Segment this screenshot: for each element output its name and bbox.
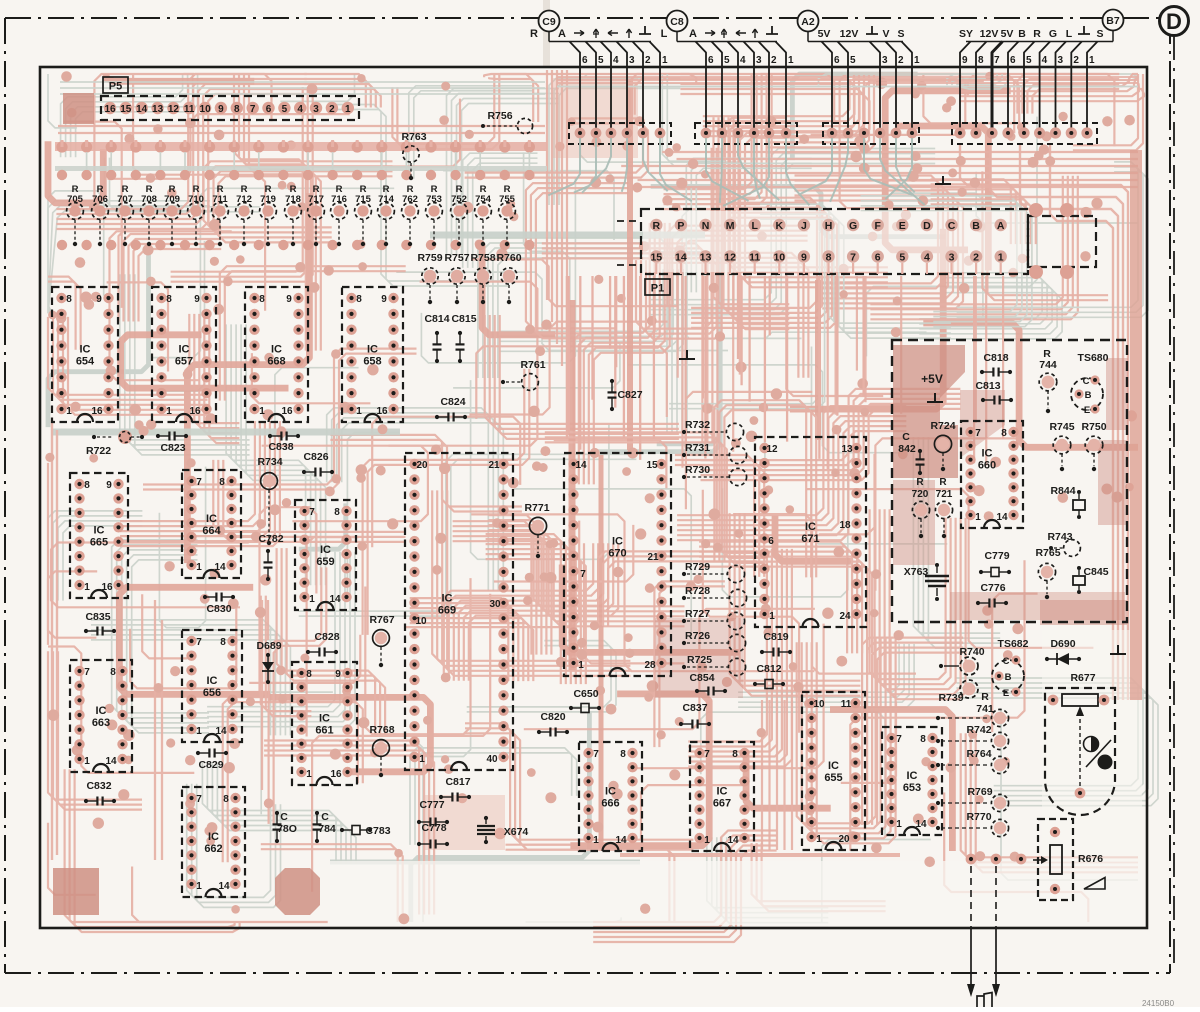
- svg-text:R767: R767: [369, 614, 394, 626]
- inner board border: [40, 67, 1147, 928]
- svg-text:1: 1: [1089, 55, 1095, 66]
- svg-text:C: C: [1003, 656, 1010, 667]
- svg-text:12: 12: [766, 444, 778, 455]
- svg-text:13: 13: [700, 252, 712, 264]
- svg-text:8: 8: [356, 294, 362, 305]
- svg-text:C823: C823: [160, 442, 185, 454]
- svg-text:R761: R761: [520, 359, 545, 371]
- svg-text:3: 3: [1058, 55, 1064, 66]
- svg-text:D689: D689: [256, 640, 281, 652]
- svg-text:R726: R726: [685, 630, 710, 642]
- svg-text:2: 2: [898, 55, 904, 66]
- svg-text:R759: R759: [417, 252, 442, 264]
- svg-text:C813: C813: [975, 380, 1000, 392]
- svg-text:670: 670: [608, 548, 626, 560]
- svg-text:R: R: [981, 691, 989, 703]
- IC 664: [182, 470, 241, 578]
- svg-text:5V: 5V: [818, 28, 831, 40]
- svg-text:656: 656: [203, 687, 221, 699]
- svg-text:661: 661: [315, 725, 333, 737]
- svg-text:15: 15: [650, 252, 662, 264]
- connector P5: [101, 96, 359, 120]
- IC 656: [182, 630, 242, 742]
- svg-text:8: 8: [920, 734, 926, 745]
- svg-text:8: 8: [1001, 428, 1007, 439]
- svg-text:F: F: [874, 220, 881, 232]
- IC 668: [245, 287, 308, 422]
- svg-text:P: P: [677, 220, 684, 232]
- svg-text:C: C: [1083, 376, 1090, 387]
- svg-text:IC: IC: [80, 344, 91, 356]
- svg-text:C837: C837: [682, 702, 707, 714]
- copper vertical traces below P1: [786, 276, 788, 442]
- svg-text:R731: R731: [685, 442, 710, 454]
- svg-text:9: 9: [335, 669, 341, 680]
- svg-text:C782: C782: [258, 533, 283, 545]
- svg-text:R724: R724: [930, 420, 955, 432]
- trimmer R676: [1038, 819, 1073, 900]
- svg-text:663: 663: [92, 717, 110, 729]
- dashed line below D: [1173, 36, 1175, 970]
- svg-text:8: 8: [620, 749, 626, 760]
- svg-text:R758: R758: [470, 252, 495, 264]
- svg-text:744: 744: [1039, 359, 1057, 371]
- svg-text:14: 14: [575, 460, 587, 471]
- svg-text:8: 8: [732, 749, 738, 760]
- capacitor C783: [343, 829, 352, 831]
- svg-text:4: 4: [613, 55, 619, 66]
- svg-text:C: C: [902, 431, 910, 443]
- svg-text:6: 6: [875, 252, 881, 264]
- svg-text:C776: C776: [980, 582, 1005, 594]
- svg-text:C779: C779: [984, 550, 1009, 562]
- svg-text:R750: R750: [1081, 421, 1106, 433]
- svg-text:14: 14: [675, 252, 687, 264]
- svg-text:G: G: [849, 220, 857, 232]
- svg-text:R740: R740: [959, 646, 984, 658]
- IC 653: [882, 727, 942, 835]
- svg-text:13: 13: [841, 444, 853, 455]
- svg-text:842: 842: [898, 443, 916, 455]
- svg-text:665: 665: [90, 537, 108, 549]
- copper trace texture: [48, 74, 1158, 928]
- copper pads scatter: [701, 539, 710, 548]
- connector strip C9: [569, 123, 671, 144]
- svg-text:1: 1: [914, 55, 920, 66]
- svg-text:9: 9: [286, 294, 292, 305]
- svg-text:8: 8: [259, 294, 265, 305]
- svg-text:3: 3: [756, 55, 762, 66]
- svg-text:8: 8: [166, 294, 172, 305]
- svg-text:653: 653: [903, 782, 921, 794]
- svg-text:16: 16: [281, 406, 293, 417]
- svg-text:6: 6: [1010, 55, 1016, 66]
- svg-text:1: 1: [166, 406, 172, 417]
- svg-text:C: C: [948, 220, 956, 232]
- svg-text:IC: IC: [319, 713, 330, 725]
- svg-text:9: 9: [218, 104, 224, 115]
- svg-text:C783: C783: [365, 825, 390, 837]
- connector circle B7: [1103, 10, 1124, 31]
- svg-text:666: 666: [601, 798, 619, 810]
- IC 661: [292, 662, 357, 785]
- svg-text:669: 669: [438, 605, 456, 617]
- capacitor C830: [206, 596, 216, 598]
- svg-text:1: 1: [196, 562, 202, 573]
- svg-text:R732: R732: [685, 419, 710, 431]
- svg-text:7: 7: [580, 569, 586, 580]
- svg-text:C826: C826: [303, 451, 328, 463]
- svg-text:3: 3: [949, 252, 955, 264]
- svg-text:14: 14: [615, 835, 627, 846]
- svg-text:8: 8: [220, 637, 226, 648]
- svg-text:1: 1: [84, 756, 90, 767]
- svg-text:E: E: [1084, 405, 1090, 416]
- svg-text:655: 655: [824, 772, 842, 784]
- svg-text:IC: IC: [907, 770, 918, 782]
- connector P1: [643, 211, 1026, 272]
- svg-text:9: 9: [106, 480, 112, 491]
- svg-text:8: 8: [66, 294, 72, 305]
- svg-text:14: 14: [727, 835, 739, 846]
- svg-text:12V: 12V: [980, 28, 999, 40]
- svg-text:S: S: [897, 28, 904, 40]
- svg-text:IC: IC: [982, 448, 993, 460]
- svg-text:5V: 5V: [1001, 28, 1014, 40]
- svg-text:IC: IC: [442, 593, 453, 605]
- svg-text:C838: C838: [268, 441, 293, 453]
- svg-text:R742: R742: [966, 724, 991, 736]
- svg-text:8: 8: [978, 55, 984, 66]
- P1 label: [645, 279, 670, 295]
- svg-text:C854: C854: [689, 672, 714, 684]
- svg-text:IC: IC: [206, 513, 217, 525]
- svg-text:R728: R728: [685, 585, 710, 597]
- structural traces: [48, 70, 1128, 922]
- svg-text:R676: R676: [1078, 853, 1103, 865]
- svg-text:12: 12: [724, 252, 736, 264]
- svg-text:L: L: [661, 28, 668, 40]
- svg-text:664: 664: [202, 525, 221, 537]
- svg-text:5: 5: [282, 104, 288, 115]
- IC 654: [52, 287, 118, 422]
- svg-text:7: 7: [196, 794, 202, 805]
- svg-text:2: 2: [645, 55, 651, 66]
- svg-text:4: 4: [924, 252, 930, 264]
- connector strip B7: [952, 123, 1097, 144]
- svg-text:1: 1: [419, 754, 425, 765]
- svg-text:C: C: [321, 811, 329, 823]
- svg-text:10: 10: [813, 699, 825, 710]
- svg-text:10: 10: [773, 252, 785, 264]
- svg-text:7: 7: [704, 749, 710, 760]
- svg-text:R722: R722: [86, 445, 111, 457]
- svg-text:A: A: [689, 28, 697, 40]
- svg-text:7: 7: [250, 104, 256, 115]
- svg-text:1: 1: [975, 512, 981, 523]
- ground symbol bottom right: [1110, 645, 1126, 654]
- svg-text:20: 20: [416, 460, 428, 471]
- svg-text:654: 654: [76, 356, 95, 368]
- copper pour right band: [1130, 150, 1142, 700]
- svg-text:SY: SY: [959, 28, 973, 40]
- svg-text:C824: C824: [440, 396, 465, 408]
- capacitor C823: [159, 435, 169, 437]
- svg-text:B7: B7: [1106, 15, 1120, 27]
- svg-text:7: 7: [84, 667, 90, 678]
- IC 655: [802, 692, 865, 850]
- svg-text:2: 2: [771, 55, 777, 66]
- svg-text:21: 21: [488, 460, 500, 471]
- svg-text:7: 7: [196, 637, 202, 648]
- svg-text:R734: R734: [257, 456, 282, 468]
- svg-text:R743: R743: [1047, 531, 1072, 543]
- fold shading: [543, 0, 550, 67]
- svg-text:668: 668: [267, 356, 285, 368]
- svg-text:14: 14: [136, 104, 148, 115]
- svg-text:IC: IC: [179, 344, 190, 356]
- svg-text:R770: R770: [966, 811, 991, 823]
- svg-text:B: B: [1018, 28, 1026, 40]
- copper band under resistor row: [55, 142, 547, 151]
- pads row y147: [56, 141, 67, 152]
- svg-text:L: L: [751, 220, 758, 232]
- svg-text:4: 4: [1042, 55, 1048, 66]
- svg-text:R730: R730: [685, 464, 710, 476]
- svg-text:7: 7: [975, 428, 981, 439]
- IC 671: [755, 437, 866, 627]
- IC 665: [70, 473, 128, 598]
- svg-text:15: 15: [646, 460, 658, 471]
- svg-text:C817: C817: [445, 776, 470, 788]
- svg-text:E: E: [899, 220, 906, 232]
- svg-text:R: R: [530, 28, 538, 40]
- svg-text:15: 15: [120, 104, 132, 115]
- svg-text:C812: C812: [756, 663, 781, 675]
- copper pour bottom-left square: [53, 868, 99, 915]
- ground symbol above P1: [935, 176, 951, 184]
- svg-text:IC: IC: [605, 786, 616, 798]
- svg-text:TS680: TS680: [1078, 352, 1109, 364]
- IC 658: [342, 287, 403, 422]
- triangle symbol: [1084, 878, 1105, 890]
- svg-text:1: 1: [788, 55, 794, 66]
- svg-text:IC: IC: [208, 831, 219, 843]
- svg-text:C814: C814: [424, 313, 449, 325]
- svg-text:657: 657: [175, 356, 193, 368]
- svg-text:7: 7: [896, 734, 902, 745]
- svg-text:R844: R844: [1050, 485, 1075, 497]
- svg-text:30: 30: [489, 599, 501, 610]
- connector strip A2: [823, 123, 919, 144]
- connector circle C8: [667, 11, 688, 32]
- svg-text:D690: D690: [1050, 638, 1075, 650]
- svg-text:R764: R764: [966, 748, 991, 760]
- svg-text:10: 10: [200, 104, 212, 115]
- svg-text:C815: C815: [451, 313, 476, 325]
- svg-text:J: J: [801, 220, 807, 232]
- svg-text:1: 1: [816, 834, 822, 845]
- svg-text:L: L: [1066, 28, 1073, 40]
- svg-text:C777: C777: [419, 799, 444, 811]
- svg-text:720: 720: [912, 489, 929, 500]
- svg-text:16: 16: [91, 406, 103, 417]
- copper pour top-left square: [63, 93, 94, 124]
- connector strip C8: [695, 123, 797, 144]
- svg-text:3: 3: [629, 55, 635, 66]
- IC 666: [579, 742, 642, 851]
- svg-text:24: 24: [839, 611, 851, 622]
- svg-text:1: 1: [196, 726, 202, 737]
- svg-text:2: 2: [1073, 55, 1079, 66]
- svg-text:IC: IC: [367, 344, 378, 356]
- svg-text:R765: R765: [1035, 547, 1060, 559]
- ground symbol in power block: [927, 393, 943, 402]
- svg-text:9: 9: [194, 294, 200, 305]
- svg-text:C818: C818: [983, 352, 1008, 364]
- svg-text:IC: IC: [828, 760, 839, 772]
- svg-text:D: D: [1166, 9, 1182, 34]
- svg-text:1: 1: [578, 660, 584, 671]
- svg-text:9: 9: [96, 294, 102, 305]
- IC 663: [70, 660, 132, 772]
- svg-text:14: 14: [218, 881, 230, 892]
- svg-text:6: 6: [582, 55, 588, 66]
- svg-text:7: 7: [309, 507, 315, 518]
- svg-text:6: 6: [768, 536, 774, 547]
- svg-text:16: 16: [104, 104, 116, 115]
- svg-text:4: 4: [297, 104, 303, 115]
- capacitor C827: [611, 382, 613, 392]
- svg-text:3: 3: [882, 55, 888, 66]
- svg-text:5: 5: [598, 55, 604, 66]
- IC 667: [690, 742, 754, 851]
- svg-text:1: 1: [196, 881, 202, 892]
- svg-text:C830: C830: [206, 603, 231, 615]
- svg-text:1: 1: [896, 819, 902, 830]
- traces descending from connector strips: [548, 138, 925, 206]
- copper band under top border: [557, 76, 1138, 78]
- svg-text:1: 1: [998, 252, 1004, 264]
- svg-text:C650: C650: [573, 688, 598, 700]
- svg-text:7: 7: [850, 252, 856, 264]
- svg-text:5: 5: [850, 55, 856, 66]
- svg-text:IC: IC: [320, 544, 331, 556]
- svg-text:659: 659: [316, 556, 334, 568]
- svg-text:B: B: [1085, 390, 1092, 401]
- svg-text:16: 16: [330, 769, 342, 780]
- svg-text:P1: P1: [651, 283, 664, 295]
- svg-text:18: 18: [839, 520, 851, 531]
- svg-text:C819: C819: [763, 631, 788, 643]
- svg-text:24150B0: 24150B0: [1142, 999, 1175, 1007]
- svg-text:1: 1: [309, 594, 315, 605]
- pads row y175: [57, 170, 67, 180]
- svg-text:IC: IC: [94, 525, 105, 537]
- svg-text:H: H: [825, 220, 833, 232]
- svg-text:8: 8: [334, 507, 340, 518]
- svg-text:A: A: [558, 28, 566, 40]
- svg-text:C8: C8: [670, 16, 684, 28]
- svg-text:10: 10: [415, 616, 427, 627]
- svg-text:1: 1: [356, 406, 362, 417]
- svg-text:11: 11: [841, 699, 852, 710]
- svg-text:C9: C9: [542, 16, 556, 28]
- svg-text:40: 40: [486, 754, 498, 765]
- sheet reference D: [1160, 7, 1189, 36]
- svg-text:8: 8: [110, 667, 116, 678]
- capacitor C838: [271, 435, 281, 437]
- svg-text:IC: IC: [805, 521, 816, 533]
- svg-text:8: 8: [223, 794, 229, 805]
- svg-text:20: 20: [838, 834, 850, 845]
- svg-text:1: 1: [345, 104, 351, 115]
- crystal X674: [484, 816, 488, 820]
- svg-text:R768: R768: [369, 724, 394, 736]
- svg-text:4: 4: [740, 55, 746, 66]
- svg-text:721: 721: [936, 489, 953, 500]
- svg-text:658: 658: [363, 356, 381, 368]
- svg-text:1: 1: [769, 611, 775, 622]
- svg-text:K: K: [776, 220, 784, 232]
- svg-text:IC: IC: [717, 786, 728, 798]
- IC 657: [152, 287, 216, 422]
- svg-text:1: 1: [66, 406, 72, 417]
- svg-text:C829: C829: [198, 759, 223, 771]
- svg-text:1: 1: [662, 55, 668, 66]
- ground symbol near P1: [679, 350, 695, 359]
- svg-text:P5: P5: [109, 81, 122, 93]
- svg-text:6: 6: [266, 104, 272, 115]
- svg-text:IC: IC: [271, 344, 282, 356]
- svg-text:R771: R771: [524, 502, 549, 514]
- svg-text:IC: IC: [207, 675, 218, 687]
- svg-text:5: 5: [899, 252, 905, 264]
- svg-text:662: 662: [204, 843, 222, 855]
- svg-text:R760: R760: [496, 252, 521, 264]
- svg-text:C778: C778: [421, 822, 446, 834]
- IC 660: [961, 421, 1023, 528]
- svg-text:671: 671: [801, 533, 819, 545]
- IC 670: [564, 453, 671, 676]
- svg-text:C820: C820: [540, 711, 565, 723]
- svg-text:5: 5: [1026, 55, 1032, 66]
- svg-text:R: R: [1033, 28, 1041, 40]
- svg-text:R757: R757: [444, 252, 469, 264]
- svg-text:2: 2: [973, 252, 979, 264]
- copper pour bottom octagon: [275, 868, 320, 915]
- svg-text:R745: R745: [1049, 421, 1074, 433]
- svg-text:6: 6: [708, 55, 714, 66]
- svg-text:1: 1: [593, 835, 599, 846]
- svg-text:R: R: [653, 220, 661, 232]
- svg-text:1: 1: [704, 835, 710, 846]
- svg-text:12V: 12V: [840, 28, 859, 40]
- svg-text:1: 1: [306, 769, 312, 780]
- svg-text:2: 2: [329, 104, 335, 115]
- output wires with arrows: [966, 854, 977, 865]
- IC 659: [295, 500, 356, 610]
- svg-text:X674: X674: [504, 826, 529, 838]
- svg-text:N: N: [702, 220, 710, 232]
- svg-text:IC: IC: [96, 705, 107, 717]
- svg-text:11: 11: [749, 252, 760, 264]
- svg-text:R727: R727: [685, 608, 710, 620]
- svg-text:R: R: [939, 477, 947, 488]
- svg-text:R763: R763: [401, 131, 426, 143]
- svg-text:3: 3: [313, 104, 319, 115]
- svg-text:13: 13: [152, 104, 164, 115]
